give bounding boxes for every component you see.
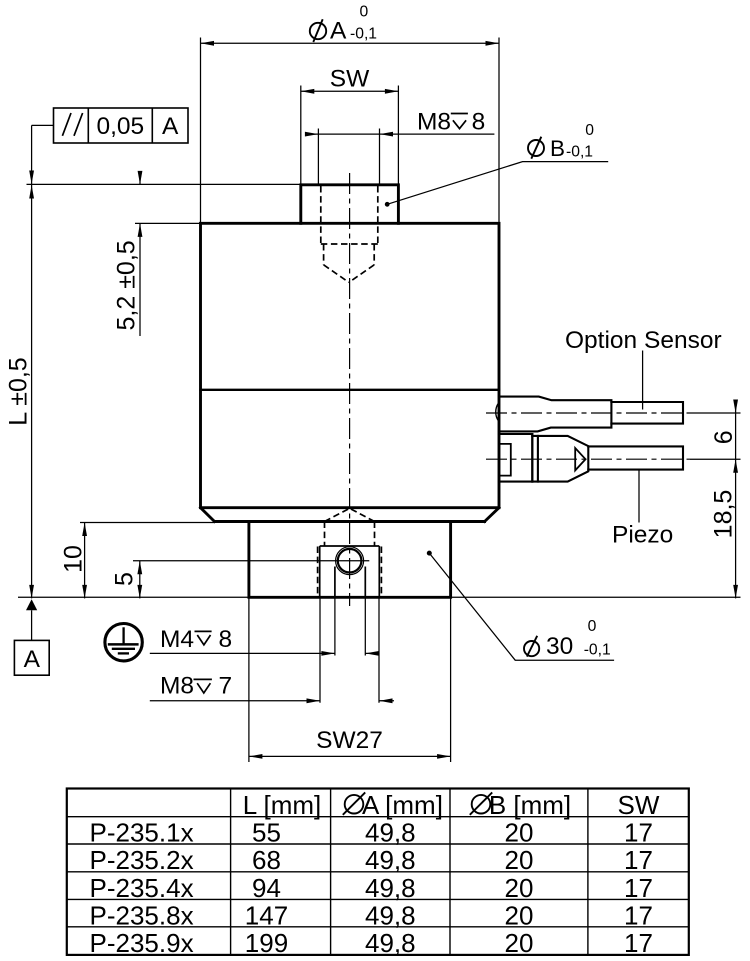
svg-text:17: 17 [624, 928, 653, 958]
svg-text:55: 55 [252, 817, 281, 847]
svg-text:P-235.9x: P-235.9x [90, 928, 194, 958]
svg-text:94: 94 [252, 873, 281, 903]
svg-text:Option Sensor: Option Sensor [565, 327, 722, 354]
svg-text:17: 17 [624, 845, 653, 875]
svg-text:L ±0,5: L ±0,5 [4, 357, 32, 425]
svg-text:18,5: 18,5 [710, 490, 738, 539]
svg-text:0: 0 [585, 122, 594, 139]
svg-text:M8: M8 [160, 673, 194, 700]
svg-text:Piezo: Piezo [612, 522, 673, 549]
svg-text:199: 199 [245, 928, 288, 958]
svg-text:P-235.1x: P-235.1x [90, 817, 194, 847]
svg-text:49,8: 49,8 [365, 901, 416, 931]
svg-text:10: 10 [60, 545, 88, 573]
svg-text:-0,1: -0,1 [566, 143, 593, 160]
svg-text:68: 68 [252, 845, 281, 875]
svg-text:8: 8 [219, 626, 233, 653]
svg-text:L [mm]: L [mm] [243, 790, 321, 820]
svg-text:7: 7 [219, 673, 233, 700]
svg-text:49,8: 49,8 [365, 928, 416, 958]
svg-text:0,05: 0,05 [96, 113, 144, 140]
svg-text:P-235.4x: P-235.4x [90, 873, 194, 903]
svg-text:17: 17 [624, 901, 653, 931]
svg-text:A: A [162, 113, 179, 140]
svg-text:17: 17 [624, 873, 653, 903]
svg-text:B: B [550, 136, 565, 161]
svg-text:49,8: 49,8 [365, 873, 416, 903]
svg-text:49,8: 49,8 [365, 845, 416, 875]
svg-text:6: 6 [710, 430, 738, 444]
svg-text:20: 20 [505, 901, 534, 931]
svg-text:0: 0 [360, 3, 369, 20]
svg-text:20: 20 [505, 928, 534, 958]
svg-text:5,2 ±0,5: 5,2 ±0,5 [113, 240, 141, 330]
svg-text:SW: SW [618, 790, 660, 820]
svg-text:17: 17 [624, 817, 653, 847]
svg-text:SW27: SW27 [316, 727, 383, 754]
svg-text:-0,1: -0,1 [350, 26, 377, 43]
svg-text:M4: M4 [160, 626, 194, 653]
svg-text:P-235.8x: P-235.8x [90, 901, 194, 931]
svg-text:A: A [24, 646, 41, 673]
svg-text:30: 30 [546, 633, 573, 660]
svg-text:A: A [330, 18, 347, 45]
svg-text:20: 20 [505, 873, 534, 903]
svg-text:B [mm]: B [mm] [489, 790, 571, 820]
svg-text:SW: SW [330, 66, 370, 93]
svg-text:A [mm]: A [mm] [362, 790, 443, 820]
svg-text:P-235.2x: P-235.2x [90, 845, 194, 875]
svg-text:0: 0 [588, 618, 597, 635]
svg-text:20: 20 [505, 817, 534, 847]
svg-text:49,8: 49,8 [365, 817, 416, 847]
svg-text:20: 20 [505, 845, 534, 875]
svg-text:M8: M8 [417, 108, 451, 135]
svg-text:147: 147 [245, 901, 288, 931]
svg-text:8: 8 [472, 108, 486, 135]
svg-text:-0,1: -0,1 [584, 641, 611, 658]
svg-text:5: 5 [111, 572, 139, 586]
